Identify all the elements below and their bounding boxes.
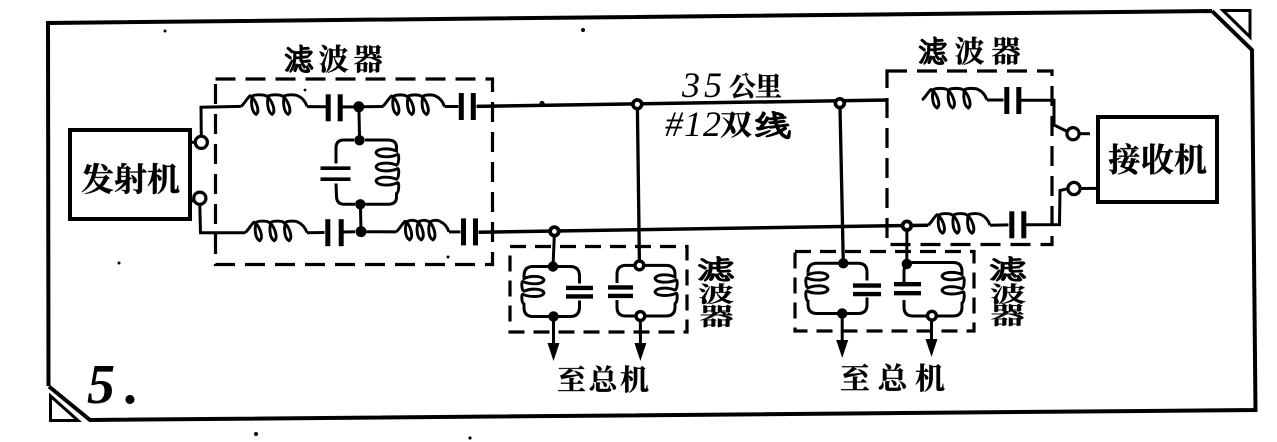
unit3 bottom node [837,308,847,318]
wire tank to node B [359,204,363,231]
wire T4 stub [1080,187,1097,190]
tank inductor L3 [376,148,399,198]
label 至总机 right [841,363,944,391]
wire J2 down [840,107,843,259]
unit2 loop outline [617,265,675,316]
unit2 inductor [655,274,677,307]
unit4 capacitor [894,284,921,293]
unit4 top node [902,259,912,269]
unit1 loop outline [524,267,580,317]
label 至总机 left [558,365,648,392]
line label 35公里 [681,65,781,105]
unit1 capacitor [566,288,593,297]
unit3 inductor [806,272,828,304]
wire node-L2 [363,105,383,108]
bottom line wire [479,225,929,232]
capacitor C7 [1012,211,1024,238]
inductor L5 [396,220,449,240]
wire J4 down [905,231,908,260]
wire T1 to L1 [201,106,241,136]
tank bottom node [355,199,365,209]
inductor L1 [241,95,307,115]
top-right corner triangle [1223,11,1250,38]
node B solid [356,226,367,237]
wire T3 stub [1080,132,1091,135]
terminal T1 [195,136,207,148]
inductor L4 [245,221,307,241]
left filter dashed box [216,79,493,265]
capacitor C5 [464,218,476,245]
right filter label 滤波器 [919,37,1019,65]
inductor L2 [383,95,445,115]
wire C6 to terminal [1021,100,1067,131]
arrow unit1 至总机 [548,321,560,361]
inductor L6 [922,88,987,108]
wire J3 down [553,236,554,262]
unit4 loop outline [904,263,962,317]
capacitor C1 [328,94,340,121]
unit1 top node [548,261,558,271]
lower-right filter dashed box [795,252,974,332]
arrow unit2 至总机 [634,321,646,362]
svg-text:#12: #12 [665,104,722,144]
top line node J1 ring [633,100,642,109]
label 滤波器 vertical left [699,257,734,328]
arrow unit3 至总机 [836,318,848,358]
label 滤波器 vertical right [991,257,1026,327]
unit1 bottom node [548,311,558,321]
lower-left filter dashed box [510,247,687,333]
receiver box 接收机 [1098,117,1217,202]
arrow unit4 至总机 [926,321,938,358]
top line wire [477,100,888,106]
unit2 capacitor [608,287,633,296]
right filter bottom coil L7 [928,214,990,234]
wire L1-C1 [307,105,326,108]
svg-text:5.: 5. [87,354,149,416]
unit2 bottom node ring [636,312,645,321]
unit4 bottom node ring [928,311,937,320]
tank top node ring [354,135,364,145]
node A solid [353,101,364,112]
wire C1-node [343,105,356,108]
wire L5-C5 [449,230,461,233]
unit3 loop outline [808,263,867,313]
bottom-left corner triangle [51,396,79,421]
wire L7-C7 [990,223,1009,226]
wire L4-C4 [307,231,325,234]
tank capacitor C3 [321,168,351,179]
wire L6-C6 [987,99,1004,102]
unit3 top node [838,258,848,268]
wire transmitter bottom stub [189,201,195,202]
terminal T4 [1068,182,1080,194]
bottom line node J3 [550,227,559,236]
wire node A down [357,107,361,136]
capacitor C6 [1007,87,1019,114]
unit4 inductor [942,272,964,308]
wire J1 down [637,108,639,261]
capacitor C4 [328,219,341,246]
terminal T3 [1067,128,1079,140]
speck marks [118,28,586,440]
unit2 top node ring [635,261,644,270]
wire T2 to L4 [200,205,245,233]
wire transmitter top stub [190,141,196,144]
capacitor C2 [461,93,473,120]
wire C4-nodeB [343,230,355,233]
unit3 capacitor [853,286,881,295]
transmitter label 发射机 [82,163,179,194]
bottom line node J4 [903,221,912,230]
transmitter box 发射机 [70,130,190,219]
line label #12双线 [665,104,790,144]
wire L2-C2 [445,105,459,108]
right filter dashed box [887,71,1052,245]
receiver label 接收机 [1109,143,1206,174]
terminal T2 [194,192,206,204]
left filter label 滤波器 [285,45,381,73]
top line node J2 ring [835,99,844,108]
unit1 inductor [522,276,544,308]
wire nodeB-L5 [367,230,397,233]
tank loop outline [336,140,397,204]
wire C7 to terminal [1026,189,1068,225]
svg-text:35: 35 [681,65,726,105]
